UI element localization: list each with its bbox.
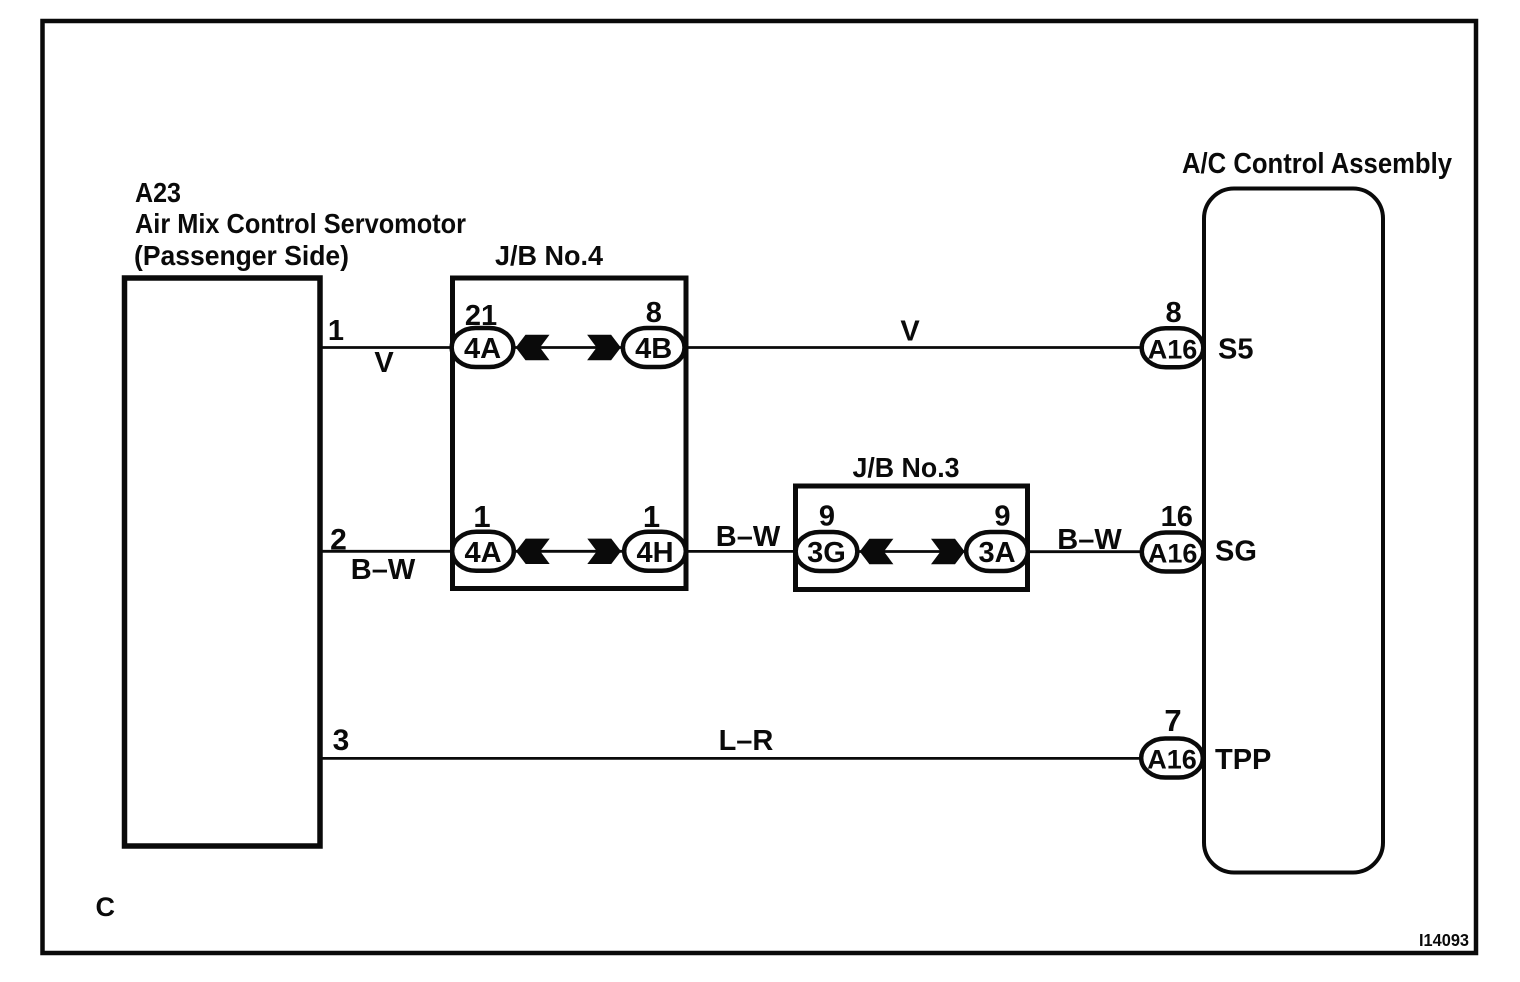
svg-text:7: 7 <box>1164 703 1181 738</box>
svg-text:21: 21 <box>465 300 497 332</box>
svg-text:16: 16 <box>1161 501 1193 533</box>
svg-text:3A: 3A <box>978 537 1015 569</box>
svg-text:3G: 3G <box>807 537 846 569</box>
svg-text:L–R: L–R <box>719 725 774 757</box>
svg-text:SG: SG <box>1215 536 1257 568</box>
svg-text:1: 1 <box>328 315 344 347</box>
svg-text:I14093: I14093 <box>1419 930 1469 950</box>
svg-text:9: 9 <box>819 501 835 533</box>
svg-text:4A: 4A <box>464 333 501 365</box>
svg-text:B–W: B–W <box>351 554 416 586</box>
svg-text:A23: A23 <box>135 177 181 208</box>
svg-text:8: 8 <box>646 297 662 329</box>
svg-text:4A: 4A <box>464 537 501 569</box>
svg-text:B–W: B–W <box>1057 524 1122 556</box>
svg-text:C: C <box>96 892 116 922</box>
svg-text:Air Mix Control Servomotor: Air Mix Control Servomotor <box>135 208 466 239</box>
svg-text:TPP: TPP <box>1215 744 1271 776</box>
svg-text:2: 2 <box>330 524 347 557</box>
svg-text:J/B No.4: J/B No.4 <box>495 240 603 271</box>
svg-text:S5: S5 <box>1218 333 1253 365</box>
svg-text:A16: A16 <box>1148 334 1198 364</box>
svg-text:1: 1 <box>473 499 490 534</box>
svg-text:A16: A16 <box>1148 539 1198 569</box>
svg-text:A/C Control Assembly: A/C Control Assembly <box>1182 148 1452 180</box>
svg-text:3: 3 <box>333 724 350 757</box>
svg-text:B–W: B–W <box>716 521 781 553</box>
svg-text:8: 8 <box>1166 297 1182 329</box>
svg-text:1: 1 <box>643 499 660 534</box>
svg-text:A16: A16 <box>1147 745 1197 775</box>
svg-text:4B: 4B <box>635 333 672 365</box>
svg-text:9: 9 <box>994 501 1010 533</box>
svg-text:J/B No.3: J/B No.3 <box>853 452 960 483</box>
svg-text:4H: 4H <box>636 537 673 569</box>
svg-text:V: V <box>900 316 920 348</box>
svg-text:(Passenger Side): (Passenger Side) <box>134 240 349 271</box>
svg-text:V: V <box>374 347 394 379</box>
